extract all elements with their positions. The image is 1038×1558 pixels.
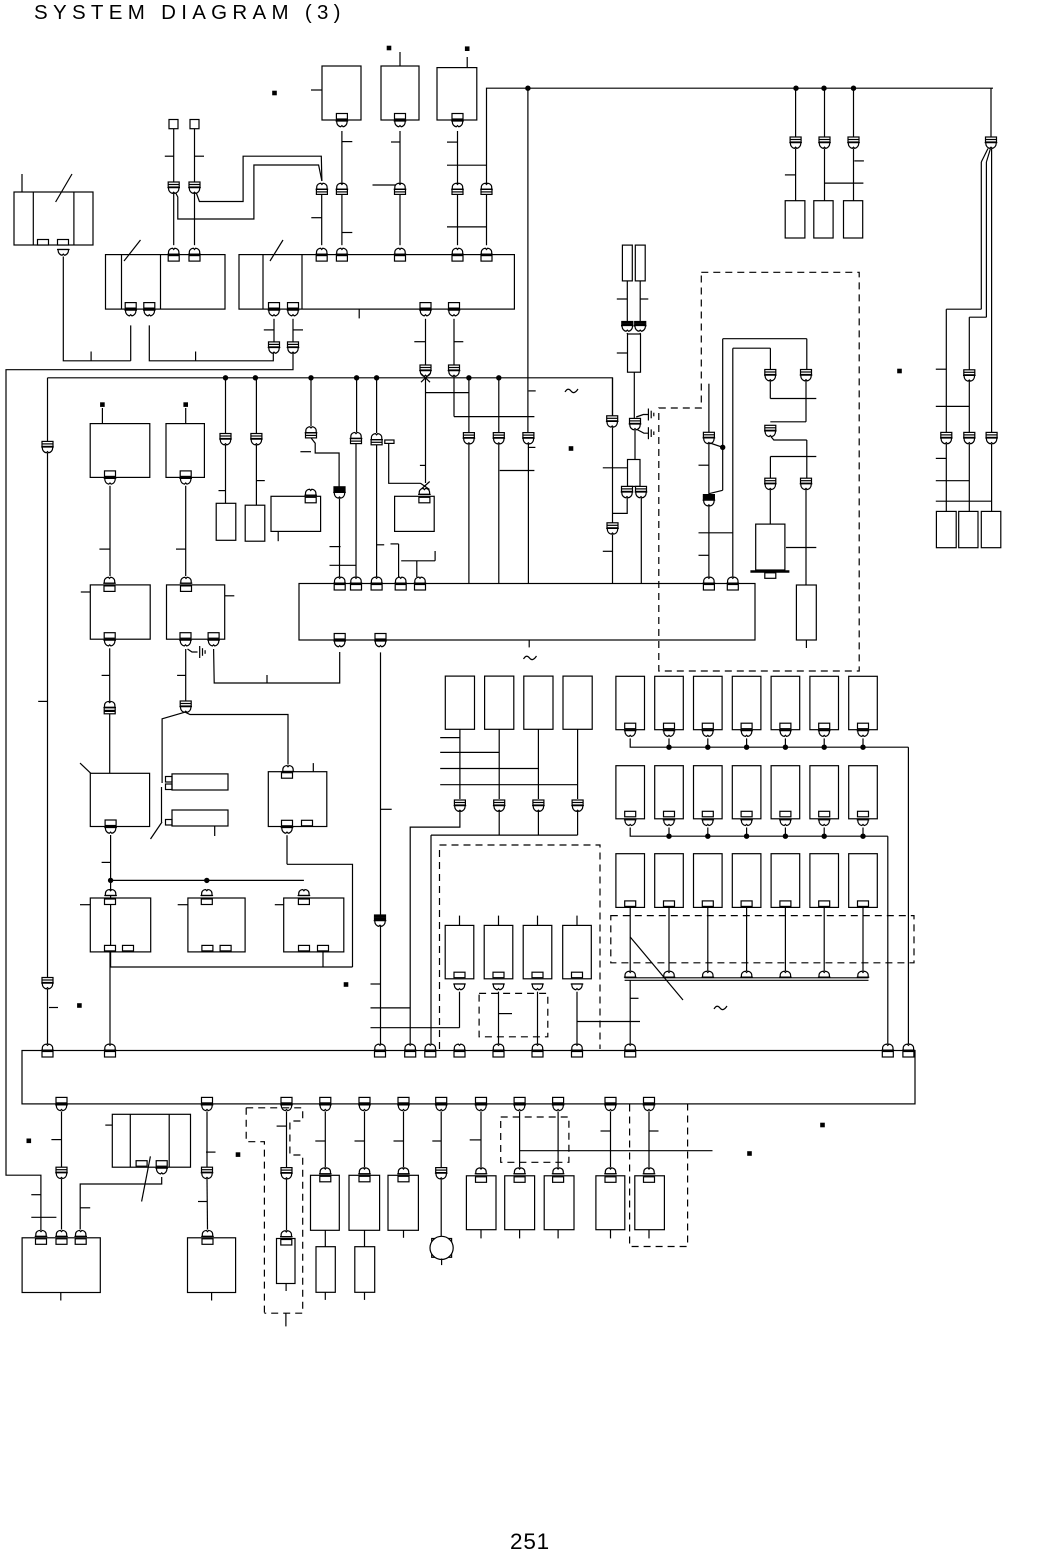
elbow to junction: [287, 864, 353, 967]
tick: [499, 1013, 513, 1015]
thick connector pairs: [622, 322, 633, 327]
component box B2: [188, 1238, 236, 1293]
link wire: [426, 392, 469, 394]
wire a down: [109, 486, 111, 576]
junction: [721, 445, 725, 449]
fusible link square 1: [169, 120, 178, 129]
load box R3C1: [616, 854, 645, 908]
tick: [640, 298, 648, 300]
horizontal rect H1: [172, 774, 228, 790]
load box R1C2: [655, 676, 684, 729]
wire: [61, 1179, 63, 1230]
connector pair: [334, 487, 345, 492]
link wire bottom: [520, 1150, 713, 1152]
junction block B: [239, 255, 514, 310]
w: [639, 333, 641, 334]
wire down: [537, 729, 539, 799]
wire: [324, 1111, 326, 1167]
connector pair G thick: [703, 495, 714, 500]
tick: [377, 544, 385, 546]
relay box M1: [90, 773, 149, 826]
wire: [613, 498, 628, 514]
ladder tick 3: [440, 768, 538, 770]
wire N1 down: [109, 952, 111, 967]
ladder tick 4: [440, 784, 577, 786]
tick: [699, 464, 709, 466]
load box R1C4: [732, 676, 761, 729]
tick: [394, 1140, 404, 1142]
junction: [205, 878, 209, 882]
tick: [177, 674, 186, 676]
connector pair D: [801, 478, 812, 483]
tick: [198, 1201, 207, 1203]
fusible link square 2: [190, 120, 199, 129]
wire to bus F: [576, 992, 578, 1044]
wire to bus F: [629, 980, 631, 1044]
tick: [936, 368, 947, 370]
link tick: [936, 480, 970, 482]
component box b: [166, 424, 204, 478]
connector pair: [42, 441, 53, 446]
tick: [470, 1139, 481, 1141]
speck: [78, 1004, 81, 1007]
stub: [519, 1230, 521, 1239]
wire: [784, 738, 786, 747]
stub below B2: [211, 1293, 213, 1301]
bus B bottom conn: [420, 303, 431, 309]
load box R2C6: [810, 766, 839, 819]
load box R2C7: [849, 766, 878, 819]
tick: [51, 1139, 61, 1141]
conn: [643, 1168, 656, 1174]
bus B top conn: [480, 248, 493, 254]
tick: [603, 467, 628, 469]
bracket2 left leg to bus E: [732, 348, 734, 577]
wire link2 down: [194, 129, 196, 246]
ground symbol at L2: [188, 649, 198, 652]
drop 4: [355, 376, 359, 380]
wire T1 down: [341, 131, 343, 245]
wire to bus B: [321, 195, 323, 246]
wire F: [708, 384, 710, 433]
diagonal to junction: [710, 443, 723, 447]
connector housing W4: [628, 460, 641, 487]
bus F bottom conn: [644, 1097, 655, 1103]
bus F bottom conn: [436, 1097, 447, 1103]
connector pair: [316, 183, 329, 189]
drop wire: [795, 88, 797, 137]
tick: [300, 451, 311, 453]
stub above MB3: [537, 916, 539, 926]
load box R3C6: [810, 854, 839, 908]
wire to bus F: [430, 835, 432, 1044]
tick: [80, 1207, 90, 1209]
X leg: [421, 374, 430, 383]
wire to bus E: [416, 561, 418, 577]
wire: [185, 649, 187, 701]
connector pair: [986, 432, 997, 437]
connector pair: [964, 432, 975, 437]
bus F top conn: [41, 1044, 54, 1050]
wire down: [823, 907, 825, 971]
connector pair: [394, 183, 407, 189]
connector: [304, 489, 317, 495]
wire: [985, 162, 987, 317]
stub: [324, 1292, 326, 1300]
tick: [102, 674, 110, 676]
stub below T2: [805, 640, 807, 648]
bracket2 right leg: [769, 348, 771, 369]
slash mark: [151, 822, 163, 839]
crossing tick: [699, 532, 733, 534]
connector pair: [103, 701, 116, 707]
load box MA3: [524, 676, 553, 729]
tick: [699, 554, 709, 556]
horizontal rect H2: [172, 810, 228, 826]
load box R3C5: [771, 854, 800, 908]
bus B bottom conn: [269, 303, 280, 309]
junction: [794, 86, 798, 90]
row2 bus: [630, 828, 888, 837]
wire: [626, 281, 628, 321]
dashed enclosure D2: [440, 845, 601, 1049]
tick: [432, 1140, 441, 1142]
small box V2: [959, 511, 978, 547]
bus F top conn: [453, 1044, 466, 1050]
conn: [552, 1168, 565, 1174]
chassis ground branch 1: [636, 415, 648, 418]
slash mark A: [124, 240, 141, 261]
wire battery to fuse box A: [63, 257, 130, 361]
crossing tick: [500, 470, 535, 472]
wire B1 to B0: [80, 1177, 162, 1230]
tick: [649, 1130, 659, 1132]
inline terminal: [385, 440, 394, 443]
wire: [459, 992, 461, 1028]
connector pair: [964, 370, 975, 375]
slash mark: [142, 1156, 151, 1201]
thin box C3b: [355, 1247, 375, 1293]
drop 7: [497, 376, 501, 380]
tick: [414, 341, 425, 343]
wire: [708, 444, 710, 495]
wire T2 down: [399, 131, 401, 245]
X leg: [421, 374, 430, 383]
speck above T2: [387, 46, 390, 49]
wire up to bus A: [130, 325, 132, 360]
stub left of T1: [311, 89, 322, 91]
wire: [746, 828, 748, 837]
load box MB1: [445, 925, 474, 978]
wire: [557, 1111, 559, 1167]
load box MB2: [484, 925, 513, 978]
wire: [480, 1111, 482, 1167]
tick: [617, 352, 628, 354]
stub: [105, 1124, 112, 1126]
M2 bottom pins: [282, 820, 293, 826]
wire drop3: [310, 378, 312, 426]
wire 612: [612, 378, 614, 416]
tick: [256, 480, 264, 482]
component box L1: [90, 585, 150, 639]
wire: [498, 811, 500, 835]
wire down: [784, 907, 786, 971]
component box: [596, 1176, 625, 1230]
slash into M1: [80, 763, 91, 773]
conn: [319, 1168, 332, 1174]
speck: [898, 369, 901, 372]
stub below K1: [277, 531, 279, 541]
wire below W3: [633, 372, 635, 418]
H1 pins: [166, 777, 173, 783]
wire M2 down: [286, 835, 288, 864]
tick: [206, 1151, 216, 1153]
connector pair F: [703, 432, 714, 437]
wire to bus F right: [887, 836, 889, 1044]
stub above box a: [101, 408, 103, 424]
ladder tick 1: [440, 737, 460, 739]
X leg b: [421, 482, 430, 490]
wire: [707, 738, 709, 747]
tick: [420, 464, 425, 466]
bus F top conn: [404, 1044, 417, 1050]
tick: [165, 155, 174, 157]
bus B top conn: [336, 248, 349, 254]
component box: [544, 1176, 574, 1230]
wire to bus E: [527, 444, 529, 584]
wire to box: [853, 149, 855, 201]
battery stub wire: [21, 174, 23, 192]
connector pair: [572, 800, 583, 805]
tick: [330, 546, 341, 548]
load box R1C6: [810, 676, 839, 729]
fan-out diagonals: [981, 149, 988, 163]
bus F bottom conn: [553, 1097, 564, 1103]
dashed enclosure D7: [611, 916, 914, 963]
slash mark: [630, 937, 683, 1000]
wire down: [498, 729, 500, 799]
main junction bus F: [22, 1051, 915, 1104]
hanging link wire: [454, 416, 534, 418]
wire: [519, 1111, 521, 1167]
connector pair A: [801, 370, 812, 375]
wire down: [459, 729, 461, 799]
thin box C2b: [316, 1247, 335, 1293]
wire down: [640, 498, 642, 584]
bus F bottom conn: [605, 1097, 616, 1103]
wire down: [862, 907, 864, 971]
H2 pin: [166, 820, 173, 826]
bus E bottom conn: [334, 634, 345, 640]
L2 bottom pins: [180, 633, 191, 639]
load box R3C2: [655, 854, 684, 908]
conn: [201, 890, 214, 896]
wire drop4: [356, 378, 358, 432]
X leg a: [421, 483, 430, 489]
wire 528 long vertical: [527, 88, 529, 432]
wire to relay R1 area: [162, 712, 184, 758]
small box S2: [245, 505, 265, 541]
wire down: [629, 907, 631, 971]
bus F bottom conn: [56, 1097, 67, 1103]
tick: [315, 1140, 325, 1142]
tick: [342, 141, 352, 143]
connector above M2: [282, 766, 295, 772]
thin box B3: [277, 1239, 296, 1284]
wire: [403, 1111, 405, 1167]
battery terminal tabs: [38, 240, 49, 246]
short wire to bus E: [398, 544, 400, 577]
stub: [364, 1292, 366, 1300]
component box T1: [322, 66, 361, 120]
w: [626, 333, 628, 334]
tick: [195, 352, 197, 361]
wire: [746, 738, 748, 747]
connector pair on link2 wire: [189, 182, 200, 187]
wire: [945, 444, 947, 512]
wire: [273, 319, 275, 342]
load box R2C2: [655, 766, 684, 819]
bus F bottom conn: [281, 1097, 292, 1103]
link wire: [371, 1007, 411, 1009]
tick: [99, 548, 110, 550]
conn: [397, 1168, 410, 1174]
component box T3: [437, 68, 477, 120]
stub above MB2: [498, 916, 500, 926]
stub: [610, 1230, 612, 1239]
wire 454: [453, 319, 455, 365]
elbow: [969, 316, 986, 318]
speck: [273, 91, 276, 94]
bus A top conn 2: [188, 248, 201, 254]
load box R2C1: [616, 766, 645, 819]
N1 bottom pins: [105, 945, 116, 951]
tick: [49, 1007, 58, 1009]
bus F top conn: [902, 1044, 915, 1050]
wire to bus E: [339, 498, 341, 577]
bus F top conn: [882, 1044, 895, 1050]
stub below circle: [441, 1259, 443, 1266]
wire to box: [795, 149, 797, 201]
wire to K2: [389, 443, 421, 483]
bracket1 right leg: [806, 339, 808, 370]
link tick: [330, 564, 356, 566]
bus F top conn: [374, 1044, 387, 1050]
junction: [822, 86, 826, 90]
wire to bus E: [708, 506, 710, 577]
link wire: [371, 1027, 460, 1029]
bus F bottom conn: [398, 1097, 409, 1103]
conn: [604, 1168, 617, 1174]
drop 5: [375, 376, 379, 380]
bus F top conn: [492, 1044, 505, 1050]
link wire: [447, 226, 487, 228]
wire: [769, 457, 771, 479]
wire drop5: [376, 378, 378, 433]
bus E top conn: [350, 577, 363, 583]
conn: [35, 1230, 48, 1236]
stub above box b: [185, 408, 187, 424]
tick: [311, 217, 321, 219]
stub below C4: [403, 1230, 405, 1238]
wire down: [668, 907, 670, 971]
wire to bus E: [376, 445, 378, 577]
conn: [280, 1231, 293, 1237]
connector pair: [480, 183, 493, 189]
load box R1C5: [771, 676, 800, 729]
bus E top conn: [727, 577, 740, 583]
connector pair: [630, 418, 641, 423]
connector pair C: [765, 478, 776, 483]
wire: [806, 440, 808, 478]
load box MA4: [563, 676, 592, 729]
tick: [266, 675, 268, 683]
tall box T2: [796, 585, 816, 640]
wire: [784, 828, 786, 837]
bracket1 left leg: [722, 339, 724, 491]
wire: [286, 1179, 288, 1231]
tick: [630, 997, 638, 999]
tick: [603, 550, 613, 552]
thin box W1: [622, 245, 632, 281]
wire: [206, 1111, 208, 1167]
conn below B0: [155, 1168, 168, 1174]
wire: [324, 1230, 326, 1246]
relay box M2: [268, 772, 327, 827]
wire 47 down: [47, 378, 49, 441]
stub right L2: [225, 595, 235, 597]
connector pair B: [765, 425, 776, 430]
row1 bus: [630, 738, 908, 747]
inner dashed box D6: [479, 993, 548, 1036]
load box R2C4: [732, 766, 761, 819]
wire 425 down: [425, 378, 427, 483]
bus A bottom conn 1: [125, 303, 136, 309]
conn: [475, 1168, 488, 1174]
elbow route: [311, 438, 339, 487]
drop wire: [853, 88, 855, 137]
stub above T3: [466, 57, 468, 68]
wire: [805, 381, 807, 422]
tick long: [373, 184, 401, 186]
wire: [634, 430, 636, 460]
junction: [851, 86, 855, 90]
wire to bus F right: [907, 747, 909, 1044]
tall thin box W3: [628, 334, 641, 372]
link tick: [825, 182, 864, 184]
crossing tick: [31, 1216, 56, 1218]
connector pair on link1 wire: [168, 182, 179, 187]
collector wire: [431, 834, 578, 836]
stub below B1: [60, 1293, 62, 1301]
component box a: [90, 424, 150, 478]
B0 bottom pins: [136, 1161, 147, 1167]
wire M1 down: [110, 835, 112, 967]
bus F top conn: [571, 1044, 584, 1050]
U link wire: [214, 649, 340, 683]
capacitor pair: [375, 915, 386, 920]
phase mark: [565, 389, 578, 393]
tick: [391, 543, 399, 545]
relay with base: [756, 524, 785, 570]
load box R3C7: [849, 854, 878, 908]
wire: [286, 1111, 288, 1167]
wire drop6: [468, 378, 470, 433]
component box: [505, 1176, 535, 1230]
connector pair: [336, 183, 349, 189]
elbow: [946, 308, 981, 310]
bus E bottom conn: [375, 634, 386, 640]
